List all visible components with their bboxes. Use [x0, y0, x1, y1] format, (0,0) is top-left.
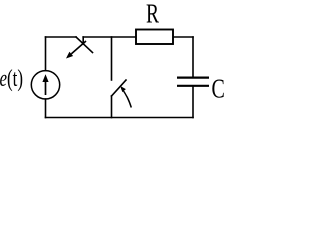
wire left vertical upper [45, 37, 47, 71]
switch S1 contact post [82, 37, 84, 44]
capacitor C bottom plate [177, 85, 209, 87]
wire top-left horizontal [46, 36, 77, 38]
wire left vertical lower [45, 99, 47, 118]
wire right vertical upper [192, 37, 194, 77]
capacitor C top plate [177, 76, 209, 78]
wire bottom horizontal [46, 117, 194, 119]
svg-text:e(t): e(t) [0, 66, 23, 92]
source arrow (emf direction, up) [42, 74, 48, 95]
wire right vertical lower [192, 87, 194, 118]
switch S1 opening arrow [66, 41, 86, 59]
wire middle vertical upper [111, 37, 113, 80]
switch S2 closing arrow (curved) [120, 86, 131, 108]
switch S1 blade (top) [76, 37, 93, 53]
wire top middle horizontal [83, 36, 136, 38]
switch S2 blade (middle) [112, 80, 127, 96]
svg-text:R: R [146, 0, 159, 28]
wire middle vertical lower [111, 96, 113, 118]
wire top-right horizontal [173, 36, 193, 38]
source e(t) circle U1 [31, 71, 59, 99]
svg-text:C: C [212, 73, 225, 103]
resistor R [136, 30, 173, 45]
